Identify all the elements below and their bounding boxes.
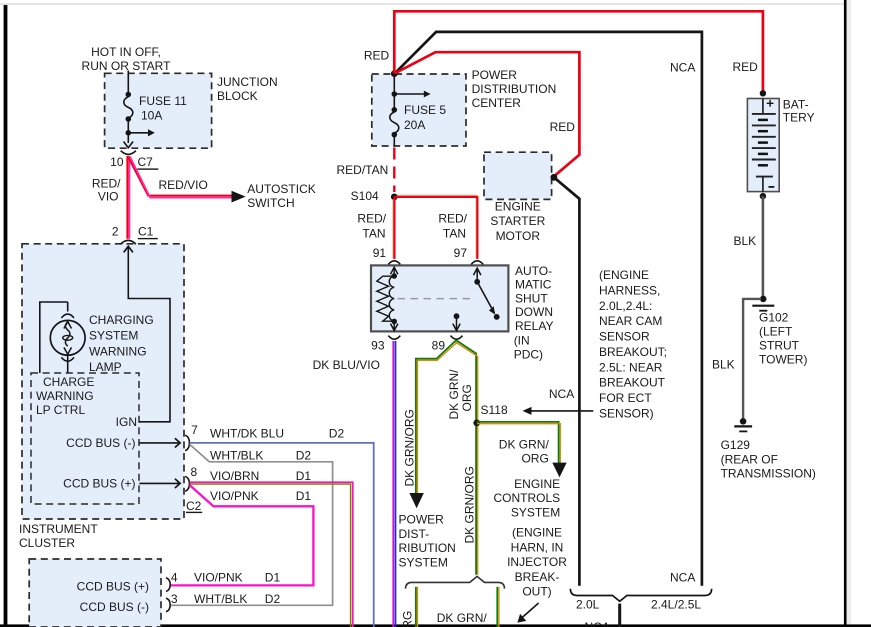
splice S118 <box>473 420 480 427</box>
rotated label DK GRN/ ORG at pin 89 <box>447 369 474 420</box>
svg-text:DK GRN/: DK GRN/ <box>499 437 550 451</box>
svg-text:2.5L: NEAR: 2.5L: NEAR <box>599 360 663 374</box>
svg-text:AUTO-: AUTO- <box>515 264 552 278</box>
wire stub into junction block <box>127 71 129 95</box>
svg-text:VIO/PNK: VIO/PNK <box>210 489 259 503</box>
CCD BUS (+) arrow to pin 8 <box>139 479 180 488</box>
svg-text:HARNESS,: HARNESS, <box>599 284 660 298</box>
svg-text:HARN, IN: HARN, IN <box>511 541 564 555</box>
svg-text:RELAY: RELAY <box>515 319 553 333</box>
svg-text:(IN: (IN <box>514 333 530 347</box>
svg-text:RED/: RED/ <box>92 177 121 191</box>
svg-text:G129: G129 <box>721 438 751 452</box>
label charge warning lp ctrl <box>36 375 94 417</box>
svg-text:SWITCH: SWITCH <box>247 196 294 210</box>
svg-text:ENGINE: ENGINE <box>514 477 560 491</box>
svg-text:G102: G102 <box>759 311 789 325</box>
wire NCA black top <box>395 32 702 586</box>
svg-text:CHARGE: CHARGE <box>43 375 94 389</box>
splice S104 <box>391 194 398 201</box>
svg-text:D2: D2 <box>265 592 281 606</box>
connector pin 3 <box>166 598 170 612</box>
ground G129 <box>734 418 752 431</box>
connector C7 <box>121 151 136 155</box>
svg-text:RED: RED <box>550 120 576 134</box>
svg-text:2.0L: 2.0L <box>576 597 600 611</box>
wire DK GRN/ORG 2.4L below brace <box>497 587 499 627</box>
label C7 <box>137 155 158 170</box>
svg-text:SHUT: SHUT <box>515 291 548 305</box>
rotated label DK GRN/ORG left wire <box>403 409 417 486</box>
svg-text:AUTOSTICK: AUTOSTICK <box>247 182 315 196</box>
svg-text:VIO/PNK: VIO/PNK <box>194 571 243 585</box>
power distribution center <box>372 74 466 146</box>
label engine harness text block <box>599 268 667 420</box>
svg-text:SYSTEM: SYSTEM <box>399 555 448 569</box>
label autostick switch <box>247 182 315 210</box>
wire C1 to IGN <box>124 246 170 421</box>
svg-text:PDC): PDC) <box>514 348 543 362</box>
wire WHT/DK BLU D2 <box>190 443 374 627</box>
wire BLK battery to G102 <box>762 196 765 296</box>
svg-text:D1: D1 <box>296 469 312 483</box>
label engine controls system <box>494 477 561 520</box>
svg-text:IGN: IGN <box>116 415 137 429</box>
svg-text:CCD BUS (+): CCD BUS (+) <box>63 477 135 491</box>
svg-text:WHT/BLK: WHT/BLK <box>194 592 247 606</box>
svg-text:RED/: RED/ <box>357 212 386 226</box>
label fuse 5 <box>404 103 446 132</box>
wire labels D2/D1 rows <box>210 426 344 503</box>
battery internals <box>752 90 776 199</box>
wire RED to battery <box>394 11 763 91</box>
relay box U1 <box>371 265 508 331</box>
svg-text:SYSTEM: SYSTEM <box>511 505 560 519</box>
wire RED/TAN dashed below PDC <box>393 148 395 193</box>
svg-text:DK GRN/ORG: DK GRN/ORG <box>403 409 417 486</box>
CCD BUS (-) arrow to pin 7 <box>139 438 180 447</box>
fuse F11 <box>124 92 133 143</box>
svg-text:(ENGINE: (ENGINE <box>599 268 649 282</box>
svg-text:VIO: VIO <box>98 190 119 204</box>
wire NCA bottom <box>618 604 621 627</box>
svg-text:DIST-: DIST- <box>399 527 430 541</box>
svg-text:RED: RED <box>733 60 759 74</box>
connector C2 pin 8 <box>185 476 189 491</box>
label G102 left strut tower <box>759 311 807 367</box>
svg-text:NCA: NCA <box>670 570 695 584</box>
wire RED/TAN S104 to pin 91 <box>393 197 394 259</box>
svg-text:SENSOR): SENSOR) <box>599 406 654 420</box>
svg-text:3: 3 <box>171 592 178 606</box>
wire DK GRN/ORG pin89 right branch to S118 <box>456 340 478 575</box>
instrument cluster box 2 <box>29 559 161 627</box>
instrument cluster box <box>22 244 184 519</box>
wire WHT/BLK D2 loop pin7 to pin3 <box>170 444 332 605</box>
svg-text:BREAK-: BREAK- <box>515 570 560 584</box>
svg-text:HOT IN OFF,: HOT IN OFF, <box>91 45 161 59</box>
svg-text:DK GRN/: DK GRN/ <box>437 611 488 625</box>
wire RED/VIO branch to autostick switch <box>128 157 232 198</box>
svg-text:NCA: NCA <box>585 620 610 627</box>
label C1 <box>138 224 158 239</box>
node PDC junction <box>391 70 398 77</box>
wire VIO/PNK D1 loop pin8 to pin4 <box>170 485 313 585</box>
svg-text:BREAKOUT: BREAKOUT <box>599 376 666 390</box>
fuse F5 <box>390 74 399 146</box>
svg-text:TOWER): TOWER) <box>759 353 807 367</box>
wire RED/TAN S104 to pin 97 <box>394 195 477 259</box>
label junction block <box>217 75 278 103</box>
svg-text:89: 89 <box>432 338 446 352</box>
rotated label DK GRN/ORG below S118 <box>463 466 477 543</box>
label RED/TAN left <box>357 212 386 241</box>
svg-text:LAMP: LAMP <box>89 360 122 374</box>
wire BLK G102 to G129 <box>743 299 761 418</box>
svg-text:91: 91 <box>373 246 387 260</box>
svg-text:CCD BUS (-): CCD BUS (-) <box>66 436 135 450</box>
svg-text:JUNCTION: JUNCTION <box>217 75 278 89</box>
svg-text:ENGINE: ENGINE <box>495 199 541 213</box>
svg-text:OUT): OUT) <box>522 585 551 599</box>
svg-text:POWER: POWER <box>472 68 518 82</box>
svg-text:7: 7 <box>191 423 198 437</box>
svg-text:CCD BUS (+): CCD BUS (+) <box>77 580 149 594</box>
svg-text:NCA: NCA <box>549 387 574 401</box>
svg-text:RUN OR START: RUN OR START <box>82 59 172 73</box>
svg-text:DISTRIBUTION: DISTRIBUTION <box>472 82 557 96</box>
svg-text:DK BLU/VIO: DK BLU/VIO <box>313 358 380 372</box>
svg-text:CENTER: CENTER <box>472 96 522 110</box>
svg-text:DK GRN/: DK GRN/ <box>447 369 461 420</box>
relay switch <box>453 268 500 331</box>
svg-text:STRUT: STRUT <box>759 339 800 353</box>
svg-text:TERY: TERY <box>783 111 815 125</box>
svg-text:FUSE 5: FUSE 5 <box>404 103 446 117</box>
svg-text:CLUSTER: CLUSTER <box>19 536 75 550</box>
fuse F11 feed arrow <box>128 129 155 136</box>
svg-text:WARNING: WARNING <box>89 344 147 358</box>
svg-text:10: 10 <box>110 155 124 169</box>
charge warning lp ctrl module <box>31 373 139 504</box>
node starter motor terminal <box>551 174 558 181</box>
label DK GRN/ ORG right of S118 <box>499 437 550 465</box>
svg-text:SYSTEM: SYSTEM <box>89 329 138 343</box>
wire DK GRN/ORG 2.0L below brace <box>416 587 418 627</box>
svg-text:RED: RED <box>364 49 390 63</box>
svg-text:LP CTRL: LP CTRL <box>36 403 85 417</box>
wire DK GRN/ORG S118 to engine controls system <box>477 422 567 478</box>
svg-text:DOWN: DOWN <box>515 305 553 319</box>
label engine harn in injector breakout <box>507 526 567 599</box>
svg-text:SENSOR: SENSOR <box>599 330 650 344</box>
svg-text:2.4L/2.5L: 2.4L/2.5L <box>651 597 701 611</box>
connector pin 97 <box>471 261 483 265</box>
svg-text:(ENGINE: (ENGINE <box>512 526 562 540</box>
svg-text:C7: C7 <box>138 155 154 169</box>
svg-text:VIO/BRN: VIO/BRN <box>210 469 259 483</box>
label automatic shut down relay <box>514 264 554 362</box>
svg-text:TAN: TAN <box>362 227 385 241</box>
connector pin 91 <box>388 261 400 265</box>
wire VIO/BRN D1 <box>190 482 353 627</box>
svg-text:D1: D1 <box>296 489 312 503</box>
connector pin 4 <box>166 578 170 592</box>
svg-text:ORG: ORG <box>521 451 548 465</box>
label power distribution center <box>472 68 557 110</box>
lower wire labels <box>194 571 280 606</box>
label hot in off run or start <box>82 45 172 73</box>
svg-text:2: 2 <box>112 224 119 238</box>
svg-text:(REAR OF: (REAR OF <box>721 452 778 466</box>
autostick switch arrow <box>232 191 246 203</box>
label engine starter motor <box>490 199 545 243</box>
svg-text:BAT-: BAT- <box>783 98 809 112</box>
svg-text:WARNING: WARNING <box>36 389 94 403</box>
svg-text:DK GRN/ORG: DK GRN/ORG <box>401 611 415 627</box>
svg-text:CCD BUS (-): CCD BUS (-) <box>80 600 149 614</box>
svg-text:INSTRUMENT: INSTRUMENT <box>19 522 98 536</box>
relay internal dashed link <box>398 298 476 300</box>
svg-text:RIBUTION: RIBUTION <box>399 541 456 555</box>
svg-text:C2: C2 <box>186 499 202 513</box>
svg-text:BLOCK: BLOCK <box>217 89 258 103</box>
svg-text:S118: S118 <box>481 403 508 417</box>
wire DK BLU/VIO pin93 down <box>393 341 395 627</box>
engine starter motor <box>484 152 552 199</box>
svg-text:(LEFT: (LEFT <box>759 325 793 339</box>
svg-text:S104: S104 <box>351 189 379 203</box>
svg-text:10A: 10A <box>141 109 162 123</box>
svg-text:RED/VIO: RED/VIO <box>159 178 208 192</box>
svg-text:WHT/BLK: WHT/BLK <box>210 448 263 462</box>
svg-text:MATIC: MATIC <box>515 278 552 292</box>
svg-text:NCA: NCA <box>670 60 695 74</box>
svg-text:FOR ECT: FOR ECT <box>599 391 652 405</box>
connector pin 93 <box>388 336 400 340</box>
svg-text:CHARGING: CHARGING <box>89 313 154 327</box>
label instrument cluster <box>19 522 98 550</box>
engine variant brace <box>570 589 711 602</box>
relay coil <box>377 267 398 330</box>
wire RED/VIO vertical C7 to C1 <box>127 156 129 239</box>
svg-text:20A: 20A <box>404 118 425 132</box>
junction block output arrow <box>124 142 134 148</box>
svg-text:NEAR CAM: NEAR CAM <box>599 314 662 328</box>
svg-text:STARTER: STARTER <box>490 214 545 228</box>
svg-text:D1: D1 <box>265 571 281 585</box>
svg-text:RED/TAN: RED/TAN <box>337 163 389 177</box>
label charging system warning lamp <box>89 313 154 374</box>
connector pin 89 <box>451 336 463 340</box>
svg-text:DK GRN/ORG: DK GRN/ORG <box>463 466 477 543</box>
wire RED to starter motor <box>395 52 579 176</box>
NCA callout arrow to S118 <box>523 407 594 415</box>
svg-text:WHT/DK BLU: WHT/DK BLU <box>210 426 284 440</box>
label power distribution system <box>399 513 456 570</box>
svg-text:D2: D2 <box>329 426 345 440</box>
svg-text:BLK: BLK <box>734 234 757 248</box>
svg-text:4: 4 <box>171 571 178 585</box>
junction block <box>105 73 212 148</box>
svg-text:D2: D2 <box>296 448 312 462</box>
svg-text:INJECTOR: INJECTOR <box>507 555 567 569</box>
label BAT-TERY <box>783 98 815 125</box>
engine harness pointer arrow <box>517 603 538 623</box>
label RED/TAN right <box>438 212 467 241</box>
ground G102 <box>752 296 774 311</box>
svg-text:POWER: POWER <box>399 513 445 527</box>
svg-text:TAN: TAN <box>443 227 466 241</box>
label RED/VIO vertical <box>92 177 121 204</box>
svg-text:97: 97 <box>454 246 468 260</box>
svg-text:BREAKOUT;: BREAKOUT; <box>599 345 667 359</box>
svg-text:ORG: ORG <box>460 384 474 411</box>
connector C2 pin 7 <box>185 435 189 451</box>
label fuse 11 <box>139 94 187 123</box>
connector C1 <box>121 240 136 244</box>
harness brace <box>406 576 505 588</box>
svg-text:FUSE 11: FUSE 11 <box>139 94 187 108</box>
svg-text:93: 93 <box>371 338 385 352</box>
svg-text:BLK: BLK <box>712 357 735 371</box>
svg-text:8: 8 <box>191 465 198 479</box>
svg-text:CONTROLS: CONTROLS <box>494 491 561 505</box>
fuse F5 feed arrow <box>394 91 430 98</box>
svg-text:RED/: RED/ <box>438 212 467 226</box>
charging system warning lamp <box>40 302 85 373</box>
rotated label DK GRN/ORG bottom left <box>401 611 415 627</box>
label C2 <box>186 499 202 513</box>
label G129 rear of transmission <box>721 438 816 481</box>
wire BLK starter motor down <box>554 177 580 586</box>
svg-text:2.0L,2.4L:: 2.0L,2.4L: <box>599 299 652 313</box>
svg-text:MOTOR: MOTOR <box>496 229 541 243</box>
battery box <box>747 99 779 192</box>
wire DK GRN/ORG pin89 left branch to power distribution system <box>409 340 457 508</box>
svg-text:TRANSMISSION): TRANSMISSION) <box>721 467 816 481</box>
svg-text:C1: C1 <box>138 224 154 238</box>
